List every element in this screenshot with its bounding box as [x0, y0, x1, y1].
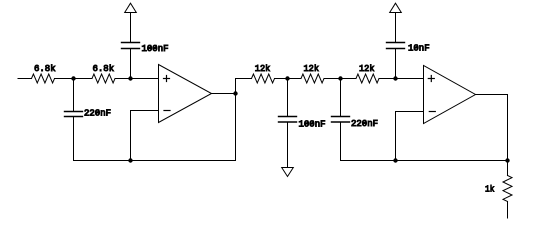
- svg-text:100nF: 100nF: [142, 44, 169, 54]
- svg-text:100nF: 100nF: [299, 120, 326, 130]
- svg-text:1k: 1k: [485, 184, 495, 194]
- svg-text:6.8k: 6.8k: [34, 64, 56, 74]
- svg-text:220nF: 220nF: [351, 119, 378, 129]
- svg-text:12k: 12k: [359, 64, 375, 74]
- svg-text:10nF: 10nF: [408, 44, 430, 54]
- svg-text:220nF: 220nF: [84, 108, 111, 118]
- svg-text:12k: 12k: [304, 64, 320, 74]
- svg-text:6.8k: 6.8k: [93, 64, 115, 74]
- svg-text:12k: 12k: [255, 64, 270, 74]
